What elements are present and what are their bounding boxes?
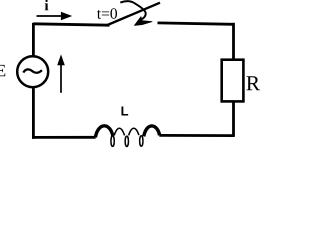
inductor loop 2 xyxy=(125,136,128,146)
voltage arrow xyxy=(57,54,65,92)
wire top-left horizontal xyxy=(33,24,109,25)
label R xyxy=(246,76,260,90)
switch blade xyxy=(106,3,160,26)
resistor R xyxy=(222,60,244,102)
wire right vertical lower xyxy=(232,101,235,136)
wire left vertical lower xyxy=(32,88,35,139)
switch arrowhead xyxy=(135,17,153,26)
switch closing arrow arc xyxy=(120,1,145,20)
inductor L right thick hump xyxy=(144,126,160,136)
wire left vertical upper xyxy=(32,23,35,56)
wire bottom-left horizontal xyxy=(32,136,96,139)
inductor thin arc 2 xyxy=(129,128,139,135)
inductor thin arc 1 xyxy=(114,128,124,135)
wire top-right horizontal xyxy=(158,23,234,24)
label L xyxy=(121,107,128,116)
inductor L left thick hump xyxy=(95,126,112,138)
current arrow i xyxy=(37,12,73,21)
inductor loop 1 xyxy=(111,136,114,147)
AC source E circle xyxy=(17,56,48,87)
wire right vertical upper xyxy=(232,23,235,61)
label i xyxy=(45,0,49,10)
inductor loop 3 xyxy=(140,136,143,147)
AC source sine wave xyxy=(23,69,42,72)
wire bottom-right horizontal xyxy=(159,134,235,137)
label E (cut at left edge) xyxy=(0,65,5,76)
label t=0 xyxy=(97,8,117,18)
